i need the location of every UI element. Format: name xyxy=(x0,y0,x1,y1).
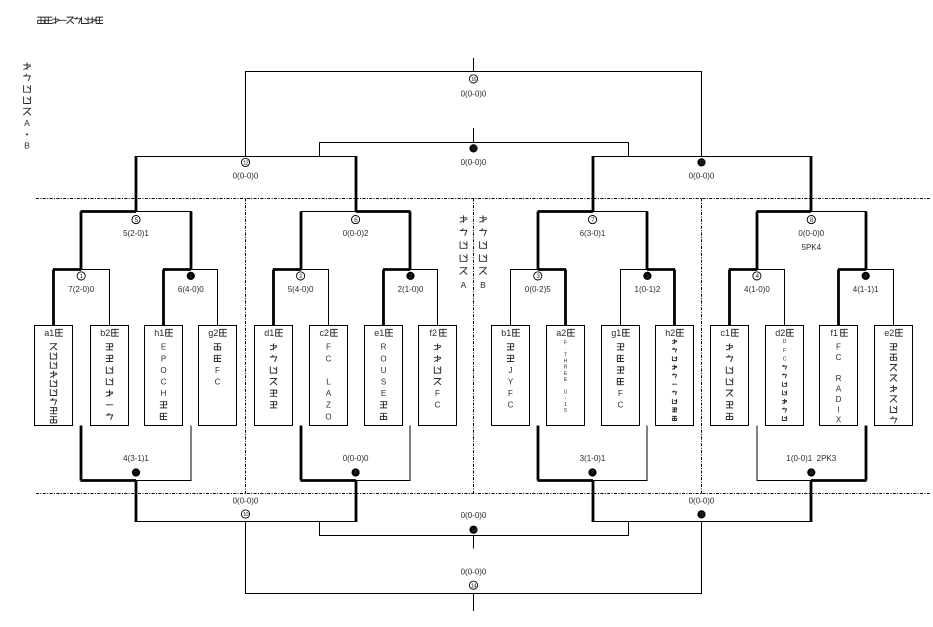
svg-text:f2: f2 xyxy=(430,328,438,338)
svg-text:3: 3 xyxy=(646,273,650,280)
svg-text:F: F xyxy=(618,389,623,398)
svg-text:c1: c1 xyxy=(721,328,731,338)
svg-text:5: 5 xyxy=(134,470,138,477)
svg-text:R: R xyxy=(836,374,842,383)
svg-text:2: 2 xyxy=(409,273,413,280)
svg-text:P: P xyxy=(161,354,166,363)
svg-text:b1: b1 xyxy=(501,328,511,338)
svg-text:B: B xyxy=(480,280,486,290)
svg-text:F: F xyxy=(564,340,567,346)
svg-text:F: F xyxy=(783,348,786,354)
svg-text:7: 7 xyxy=(591,470,595,477)
svg-text:H: H xyxy=(161,389,167,398)
svg-text:g2: g2 xyxy=(208,328,218,338)
svg-text:.: . xyxy=(565,346,566,352)
svg-text:0(0-0)0: 0(0-0)0 xyxy=(461,158,487,167)
svg-text:O: O xyxy=(160,366,166,375)
svg-text:16: 16 xyxy=(471,77,476,83)
svg-text:A: A xyxy=(24,118,30,128)
svg-text:a1: a1 xyxy=(44,328,54,338)
svg-text:R: R xyxy=(564,365,568,371)
svg-text:T: T xyxy=(564,352,567,358)
svg-text:D: D xyxy=(783,339,787,345)
svg-text:0(0-0)0: 0(0-0)0 xyxy=(233,172,259,181)
svg-text:f1: f1 xyxy=(831,328,839,338)
svg-text:E: E xyxy=(161,343,166,352)
svg-text:R: R xyxy=(381,343,387,352)
svg-text:U: U xyxy=(564,390,568,396)
svg-text:A: A xyxy=(326,389,332,398)
svg-text:1: 1 xyxy=(564,402,567,408)
svg-text:F: F xyxy=(215,366,220,375)
svg-text:L: L xyxy=(326,378,331,387)
svg-text:0(0-0)0: 0(0-0)0 xyxy=(798,229,824,238)
svg-text:5PK4: 5PK4 xyxy=(802,243,822,252)
svg-text:e1: e1 xyxy=(374,328,384,338)
svg-text:14: 14 xyxy=(471,583,476,589)
svg-text:B: B xyxy=(24,141,30,151)
svg-text:O: O xyxy=(380,354,386,363)
svg-text:Z: Z xyxy=(326,401,331,410)
svg-text:h1: h1 xyxy=(154,328,164,338)
svg-text:4(1-1)1: 4(1-1)1 xyxy=(853,285,879,294)
svg-text:D: D xyxy=(836,395,842,404)
svg-text:1: 1 xyxy=(189,273,193,280)
svg-text:4: 4 xyxy=(864,273,868,280)
svg-text:8: 8 xyxy=(809,470,813,477)
svg-text:2(1-0)0: 2(1-0)0 xyxy=(398,285,424,294)
svg-text:5: 5 xyxy=(564,408,567,414)
svg-text:0(0-0)2: 0(0-0)2 xyxy=(343,229,369,238)
svg-text:0(0-2)5: 0(0-2)5 xyxy=(525,285,551,294)
svg-text:1(0-0)1 2PK3: 1(0-0)1 2PK3 xyxy=(786,454,836,463)
svg-text:J: J xyxy=(509,366,513,375)
svg-text:F: F xyxy=(326,343,331,352)
svg-text:4(3-1)1: 4(3-1)1 xyxy=(123,454,149,463)
svg-text:E: E xyxy=(381,389,386,398)
svg-text:C: C xyxy=(508,401,514,410)
svg-text:C: C xyxy=(836,353,842,362)
svg-text:0(0-0)0: 0(0-0)0 xyxy=(343,454,369,463)
svg-text:d2: d2 xyxy=(775,328,785,338)
svg-text:6(3-0)1: 6(3-0)1 xyxy=(580,229,606,238)
svg-text:F: F xyxy=(435,389,440,398)
svg-text:C: C xyxy=(618,401,624,410)
svg-text:U: U xyxy=(381,366,387,375)
svg-text:c2: c2 xyxy=(320,328,330,338)
svg-text:C: C xyxy=(215,378,221,387)
svg-text:F: F xyxy=(508,389,513,398)
svg-text:e2: e2 xyxy=(884,328,894,338)
svg-text:Y: Y xyxy=(508,378,514,387)
svg-text:g1: g1 xyxy=(611,328,621,338)
svg-text:a2: a2 xyxy=(556,328,566,338)
svg-text:6: 6 xyxy=(354,470,358,477)
svg-text:0(0-0)0: 0(0-0)0 xyxy=(461,567,487,576)
svg-text:12: 12 xyxy=(243,161,248,167)
svg-text:S: S xyxy=(381,378,386,387)
svg-text:C: C xyxy=(161,378,167,387)
svg-text:0(0-0)0: 0(0-0)0 xyxy=(461,90,487,99)
svg-text:5(4-0)0: 5(4-0)0 xyxy=(288,285,314,294)
svg-text:C: C xyxy=(783,356,787,362)
svg-text:0(0-0)0: 0(0-0)0 xyxy=(689,172,715,181)
svg-text:7(2-0)0: 7(2-0)0 xyxy=(68,285,94,294)
svg-text:b2: b2 xyxy=(100,328,110,338)
svg-text:0(0-0)0: 0(0-0)0 xyxy=(461,511,487,520)
svg-text:C: C xyxy=(326,354,332,363)
svg-text:4(1-0)0: 4(1-0)0 xyxy=(744,285,770,294)
svg-text:d1: d1 xyxy=(264,328,274,338)
svg-text:3(1-0)1: 3(1-0)1 xyxy=(580,454,606,463)
svg-text:A: A xyxy=(836,384,842,393)
svg-text:h2: h2 xyxy=(665,328,675,338)
svg-text:I: I xyxy=(837,405,839,414)
svg-text:F: F xyxy=(836,343,841,352)
svg-text:O: O xyxy=(325,412,331,421)
svg-text:C: C xyxy=(435,401,441,410)
svg-text:X: X xyxy=(836,416,842,425)
svg-text:A: A xyxy=(461,280,467,290)
svg-text:6(4-0)0: 6(4-0)0 xyxy=(178,285,204,294)
svg-text:10: 10 xyxy=(243,512,248,518)
svg-text:1(0-1)2: 1(0-1)2 xyxy=(635,285,661,294)
svg-text:0(0-0)0: 0(0-0)0 xyxy=(689,497,715,506)
svg-text:H: H xyxy=(564,359,568,365)
svg-text:0(0-0)0: 0(0-0)0 xyxy=(233,497,259,506)
svg-text:5(2-0)1: 5(2-0)1 xyxy=(123,229,149,238)
